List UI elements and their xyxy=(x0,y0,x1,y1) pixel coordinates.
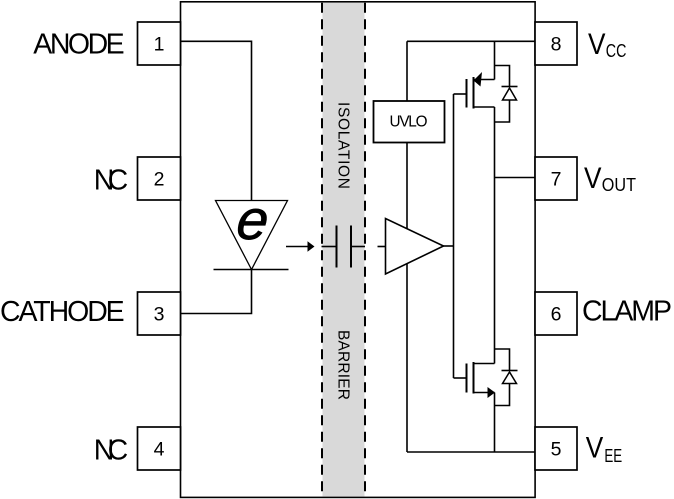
svg-text:CC: CC xyxy=(606,41,627,61)
pin box 8 xyxy=(535,22,577,65)
label BARRIER xyxy=(335,330,352,400)
transistor Q2 drain lead xyxy=(474,363,495,365)
LED D1 triangle xyxy=(216,201,288,270)
transistor Q1 drain lead xyxy=(474,106,495,108)
svg-text:3: 3 xyxy=(154,304,165,326)
label VOUT xyxy=(584,162,636,195)
wire Q2 source down to VEE rail xyxy=(494,393,496,453)
diode D3 branch wires xyxy=(495,349,510,406)
pin box 5 xyxy=(535,427,577,470)
svg-text:ISOLATION: ISOLATION xyxy=(335,102,352,189)
diode D3 cathode bar xyxy=(502,370,518,372)
LED D1 cathode bar xyxy=(214,269,289,271)
svg-text:CATHODE: CATHODE xyxy=(0,296,125,328)
svg-text:6: 6 xyxy=(551,304,562,326)
wire VOUT xyxy=(495,177,537,179)
diode D3 triangle xyxy=(503,372,517,384)
pin box 4 xyxy=(138,427,181,470)
svg-text:V: V xyxy=(586,432,604,465)
label NC pin2 xyxy=(94,164,128,196)
buffer amplifier A1 output stub xyxy=(444,245,454,247)
IC body outline U1 xyxy=(181,2,536,498)
buffer amplifier A1 input stub xyxy=(378,246,386,248)
isolation barrier strip xyxy=(322,3,365,497)
transistor Q1 gate lead xyxy=(454,93,467,95)
label CATHODE xyxy=(0,296,125,328)
pin box 6 xyxy=(535,292,577,335)
label VCC xyxy=(588,28,626,61)
label CLAMP xyxy=(582,295,672,327)
pin box 1 xyxy=(138,22,181,65)
capacitor C1 left plate xyxy=(336,226,338,268)
svg-text:V: V xyxy=(588,28,606,61)
svg-text:BARRIER: BARRIER xyxy=(335,330,352,400)
svg-text:NC: NC xyxy=(94,434,128,466)
capacitor C1 left stub xyxy=(322,246,336,248)
svg-text:2: 2 xyxy=(154,169,165,191)
pin box 3 xyxy=(138,292,181,335)
transistor Q1 channel bar xyxy=(473,77,475,109)
label VEE xyxy=(586,432,622,466)
svg-text:7: 7 xyxy=(551,169,562,191)
wire LED cathode to pin3 xyxy=(181,270,252,314)
transistor Q2 channel bar xyxy=(473,362,475,394)
wire Q1 drain down to VOUT node xyxy=(494,107,496,364)
svg-text:8: 8 xyxy=(551,34,562,56)
transistor Q1 source lead with arrow xyxy=(474,72,495,87)
pin box 7 xyxy=(535,157,577,200)
buffer amplifier A1 xyxy=(386,219,444,275)
svg-text:4: 4 xyxy=(154,439,165,461)
svg-text:ANODE: ANODE xyxy=(33,28,124,60)
svg-text:5: 5 xyxy=(551,439,562,461)
svg-text:UVLO: UVLO xyxy=(390,113,428,130)
wire gate drive rail xyxy=(453,94,455,378)
wire loop left vertical lower xyxy=(406,143,408,453)
wire VEE rail bottom xyxy=(407,451,536,453)
svg-text:NC: NC xyxy=(94,164,128,196)
diode D2 cathode bar xyxy=(502,86,518,88)
svg-text:1: 1 xyxy=(154,34,165,56)
label ANODE xyxy=(33,28,124,60)
svg-text:OUT: OUT xyxy=(602,175,636,195)
wire loop left vertical upper xyxy=(406,41,408,101)
wire VCC to Q1 xyxy=(494,41,496,79)
capacitor C1 right stub xyxy=(352,246,366,248)
svg-text:V: V xyxy=(584,162,602,195)
transistor Q1 gate bar xyxy=(466,79,468,108)
transistor Q2 gate lead xyxy=(454,377,467,379)
capacitor C1 right plate xyxy=(350,226,352,268)
label e (electron) xyxy=(234,188,272,251)
svg-text:EE: EE xyxy=(604,446,622,466)
pin box 2 xyxy=(138,157,181,200)
wire VCC rail top xyxy=(407,40,536,42)
svg-text:CLAMP: CLAMP xyxy=(582,295,672,327)
svg-text:e: e xyxy=(234,188,272,251)
label ISOLATION xyxy=(335,102,352,189)
arrow signal to barrier xyxy=(286,241,315,252)
diode D2 triangle xyxy=(503,88,517,100)
transistor Q2 source lead with arrow xyxy=(474,387,496,398)
diode D2 branch wires xyxy=(495,66,510,123)
label NC pin4 xyxy=(94,434,128,466)
transistor Q2 gate bar xyxy=(466,364,468,393)
UVLO block xyxy=(374,101,445,143)
wire pin1 to LED anode xyxy=(181,41,252,200)
